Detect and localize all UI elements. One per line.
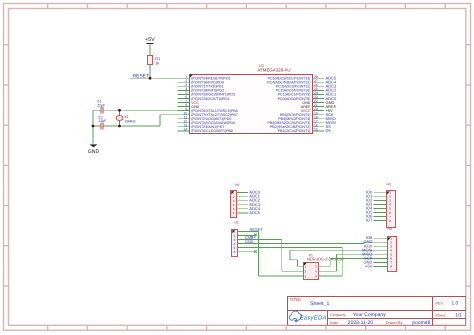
net label IO5 (366, 209, 373, 214)
svg-text:(PCINT0/CLKO/ICP1)PB0: (PCINT0/CLKO/ICP1)PB0 (191, 129, 233, 133)
svg-text:EasyEDA: EasyEDA (300, 314, 327, 321)
svg-text:RESET: RESET (133, 73, 150, 79)
net label ADC5 (326, 76, 337, 81)
H1 pin 2 (233, 195, 248, 199)
net label ADC2 (326, 88, 337, 93)
svg-text:D9: D9 (326, 128, 332, 133)
H3 pin 2 (374, 195, 392, 199)
svg-text:X1: X1 (124, 115, 128, 119)
power flag +5V (145, 37, 155, 43)
P1 designator (307, 254, 344, 262)
svg-text:2023-11-20: 2023-11-20 (348, 320, 373, 326)
H4 pin 4 (374, 249, 393, 253)
P1 body (304, 263, 319, 280)
H3 pin 5 (374, 207, 392, 211)
junction (118, 109, 121, 112)
net label ADC2 (249, 198, 260, 203)
capacitor C1 (101, 107, 103, 114)
H3 pin 3 (374, 199, 392, 203)
net label IO3 (366, 201, 373, 206)
U1 pin 7 VCC (178, 99, 200, 105)
svg-text:Company:: Company: (330, 313, 346, 317)
net label +5V (326, 108, 334, 113)
P1 pin 4 (315, 270, 325, 274)
H4 pin 6 (374, 257, 393, 261)
wire (159, 115, 161, 126)
svg-text:HDR-IDC-2.54-2X3P: HDR-IDC-2.54-2X3P (307, 256, 344, 261)
U1 pin 5 (PCINT19/OC2B/INT1)PD3 (178, 91, 235, 97)
wire (160, 114, 189, 116)
svg-text:H1: H1 (235, 183, 239, 187)
capacitor C2 (101, 123, 103, 130)
no-connect flag (254, 234, 257, 237)
svg-text:+5V: +5V (365, 263, 373, 268)
H1 pin 3 (233, 199, 248, 203)
svg-text:TITLE:: TITLE: (290, 297, 303, 302)
net label IO10 (364, 243, 373, 248)
wire (104, 109, 189, 111)
junction (149, 77, 152, 80)
wire (248, 234, 254, 236)
U1 pin 8 GND (178, 103, 200, 109)
U1 pin 16 PB2(SS#/OC1B/PCINT2) (270, 123, 324, 129)
H1 pin 5 (233, 207, 248, 211)
IC U1 ATMEGA328-PU (178, 63, 337, 133)
U1 pin 13 (PCINT23/AIN1)PD7 (178, 123, 225, 129)
wire to P1 pin6 (248, 248, 342, 277)
wire (248, 251, 254, 253)
header H1 (231, 183, 261, 218)
U1 pin 4 (PCINT18/INT0)PD2 (178, 87, 225, 93)
svg-text:Your Company: Your Company (353, 312, 386, 318)
svg-text:IO7: IO7 (366, 218, 373, 223)
U1 pin 17 PB3(MOSI/OC2A/PCINT3) (267, 119, 323, 125)
ground (88, 144, 100, 154)
H4 pin 3 (374, 245, 393, 249)
resistor R1 (148, 56, 153, 65)
svg-text:22pF: 22pF (98, 119, 106, 123)
net label IO0 (366, 189, 373, 194)
svg-text:Date:: Date: (330, 321, 339, 325)
svg-text:22pF: 22pF (97, 104, 105, 108)
H1 pin 4 (233, 203, 248, 207)
svg-text:Drawn By:: Drawn By: (386, 321, 404, 325)
net label IO8 (366, 235, 373, 240)
svg-text:8: 8 (389, 219, 391, 223)
U1 pin 25 PC2(ADC2/PCINT10) (276, 87, 324, 93)
U1 designator (258, 63, 291, 72)
U1 body (190, 75, 313, 134)
H1 pin 6 (233, 211, 248, 215)
svg-text:GND: GND (88, 149, 100, 155)
title block (288, 297, 466, 327)
U1 pin 21 AREF (301, 103, 324, 109)
H2 pin 4 (234, 242, 248, 246)
U1 pin 24 PC1(ADC1/PCINT9) (278, 91, 324, 97)
svg-text:16MHz: 16MHz (124, 119, 136, 123)
H4 pin 1 (374, 237, 393, 241)
net label ADC0 (249, 190, 260, 195)
svg-text:PB1(OC1A/PCINT1): PB1(OC1A/PCINT1) (278, 129, 311, 133)
wire RESET to P1 (248, 231, 297, 276)
net label D9 (326, 128, 332, 133)
junction (118, 125, 121, 128)
C1 value 22pF (97, 100, 105, 108)
wire (149, 43, 151, 55)
H3 pin 4 (374, 203, 392, 207)
H2 pin 3 (234, 238, 248, 242)
junction (92, 125, 95, 128)
wire (104, 125, 160, 127)
wire XTAL1 (93, 109, 100, 111)
H3 pin 6 (374, 211, 392, 215)
U1 pin 3 (PCINT17/TXD)PD1 (178, 83, 224, 89)
net label IO7 (366, 218, 373, 223)
svg-text:H4: H4 (388, 227, 392, 231)
H1 body (231, 191, 237, 218)
H3 pin 1 (374, 191, 392, 195)
U1 pin 15 PB1(OC1A/PCINT1) (278, 127, 324, 133)
net label GND (326, 100, 335, 105)
crystal X1 (116, 116, 123, 121)
U1 pin 18 PB4(MISO/PCINT4) (278, 115, 324, 121)
net label SCK (326, 112, 335, 117)
wire P1 pin2 to H4 SCK (325, 258, 374, 266)
H2 body (232, 230, 238, 257)
U1 pin 1 (PCINT14/RESET#)PC6 (178, 75, 231, 81)
net label IO2 (366, 197, 373, 202)
U1 pin 6 (PCINT20/XCK/T0)PD4 (178, 95, 229, 101)
svg-text:6: 6 (233, 211, 235, 215)
wire RESET (130, 77, 189, 79)
net label ADC5 (249, 210, 260, 215)
svg-text:poom48: poom48 (412, 320, 430, 326)
P1 pin 1 (297, 265, 307, 269)
X1 value 16MHz (124, 115, 136, 123)
U1 pin 2 (PCINT16/RXD)PD0 (178, 79, 224, 85)
net label ADC4 (326, 80, 337, 85)
svg-text:ADC5: ADC5 (249, 210, 260, 215)
net label SS (326, 124, 332, 129)
U1 pin 27 PC4(ADC4/SDA/PCINT12) (267, 79, 324, 85)
svg-text:H3: H3 (387, 183, 391, 187)
U1 pin 23 PC0(ADC0/PCINT8) (278, 95, 324, 101)
U1 pin 19 PB5(SCK/PCINT5) (280, 111, 324, 117)
H2 designator (234, 221, 238, 225)
svg-text:1/1: 1/1 (455, 313, 462, 319)
svg-text:14: 14 (184, 127, 188, 131)
C2 value 22pF (98, 116, 106, 124)
wire GND to P1 (248, 240, 297, 272)
net label MOSI (362, 247, 372, 252)
net label ADC1 (249, 194, 260, 199)
net label +5V (365, 263, 373, 268)
svg-text:8: 8 (390, 265, 392, 269)
no-connect flag (254, 250, 257, 253)
wire GND to H4 (248, 242, 374, 243)
svg-text:ATMEGA328-PU: ATMEGA328-PU (258, 68, 291, 73)
H4 pin 2 (374, 241, 393, 245)
net label MISO (326, 116, 336, 121)
net label GND (364, 239, 373, 244)
U1 pin 12 (PCINT22/OC0A/AIN0)PD6 (178, 119, 236, 125)
P1 pin 5 (297, 274, 307, 278)
wire (149, 64, 151, 78)
H2 pin 2 (234, 234, 248, 238)
connector P1 HDR-IDC-2.54-2X3P (297, 254, 345, 280)
H2 pin 5 (234, 246, 248, 250)
H4 body (388, 237, 397, 272)
net label IO1 (366, 193, 373, 198)
wire H4 MOSI to P1 pin1 (290, 250, 374, 266)
U1 pin 11 (PCINT21/OC0B/T1)PD5 (178, 115, 232, 121)
svg-text:15: 15 (314, 127, 318, 131)
H4 designator (388, 227, 392, 231)
wire XTAL2 (93, 125, 100, 127)
svg-text:1k: 1k (155, 61, 159, 66)
H1 pin 1 (233, 191, 248, 195)
net label MISO (362, 251, 372, 256)
U1 pin 9 (PCINT6/XTAL1/TOSC1)PB6 (178, 107, 238, 113)
U1 pin 10 (PCINT7/XTAL2/TOSC2)PB7 (178, 111, 238, 117)
H4 pin 5 (374, 253, 393, 257)
H4 pin 8 (374, 265, 393, 269)
header H4 (362, 227, 396, 272)
net label SCK (364, 255, 373, 260)
wire (92, 110, 94, 143)
net label ADC3 (249, 202, 260, 207)
svg-text:Sheet:: Sheet: (436, 314, 446, 318)
header H3 (366, 183, 396, 228)
U1 pin 22 GND (302, 99, 323, 105)
net label ADC0 (326, 96, 337, 101)
P1 pin 6 (315, 274, 325, 278)
H1 designator (235, 183, 239, 187)
U1 pin 20 AVCC (301, 107, 324, 113)
H3 pin 8 (374, 219, 392, 223)
svg-text:1.0: 1.0 (452, 301, 459, 307)
P1 pin 2 (315, 265, 325, 269)
net label MOSI (326, 120, 336, 125)
H2 pin 6 (234, 250, 248, 254)
P1 pin 3 (297, 270, 307, 274)
header H2 (232, 221, 249, 257)
net label GND (364, 259, 373, 264)
net label ADC3 (326, 84, 337, 89)
net label IO4 (366, 205, 373, 210)
wire P1 pin4 to H4 MISO (325, 254, 374, 271)
net label ADC1 (326, 92, 337, 97)
R1 value 1k (155, 56, 160, 65)
U1 pin 26 PC3(ADC3/PCINT11) (276, 83, 324, 89)
H3 body (387, 191, 396, 228)
svg-text:6: 6 (234, 250, 236, 254)
U1 pin 28 PC5(ADC5/SCL/PCINT13) (268, 75, 324, 81)
wire (119, 110, 121, 126)
svg-text:REV:: REV: (436, 301, 444, 305)
H3 designator (387, 183, 391, 187)
svg-text:Sheet_1: Sheet_1 (310, 301, 329, 307)
EasyEDA logo (289, 311, 326, 322)
U1 pin 14 (PCINT0/CLKO/ICP1)PB0 (178, 127, 233, 133)
net label ADC4 (249, 206, 260, 211)
H3 pin 7 (374, 215, 392, 219)
H4 pin 7 (374, 261, 393, 265)
svg-text:+5V: +5V (145, 37, 155, 43)
net label IO6 (366, 213, 373, 218)
svg-text:H2: H2 (234, 221, 238, 225)
H2 pin 1 (234, 230, 248, 234)
net label AREF (326, 104, 337, 109)
